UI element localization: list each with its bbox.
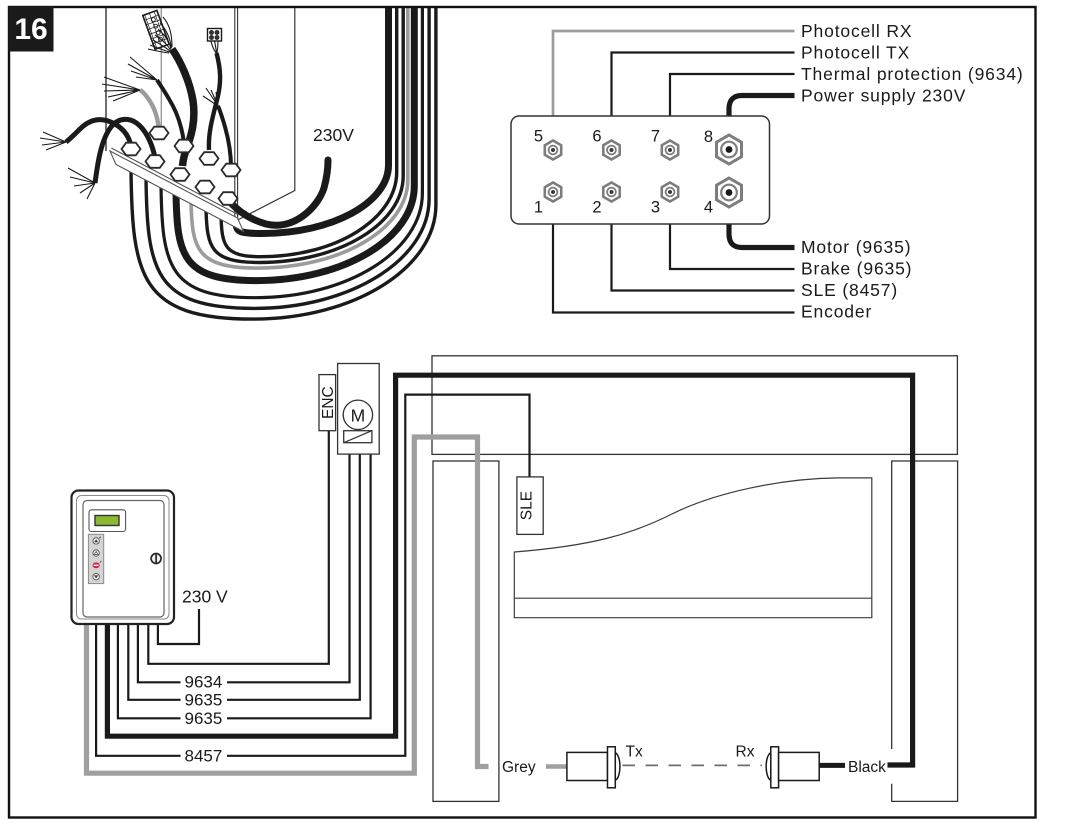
fan wires from small connector: [211, 41, 218, 53]
wire 9634 thermal left part: [138, 621, 181, 682]
multipin connector: [142, 10, 170, 50]
cable glands front row: [122, 143, 238, 205]
wavy cable exiting left: [66, 120, 131, 146]
terminal block body: [511, 116, 770, 224]
svg-text:Thermal protection (9634): Thermal protection (9634): [801, 64, 1024, 84]
svg-text:5: 5: [534, 128, 543, 146]
terminal 3: [662, 183, 678, 202]
svg-text:16: 16: [14, 13, 47, 46]
wire 9635 brake right part to motor box: [227, 454, 371, 718]
svg-text:Power supply 230V: Power supply 230V: [801, 86, 966, 106]
left door post: [433, 461, 499, 801]
svg-text:230V: 230V: [313, 125, 354, 145]
svg-text:6: 6: [592, 128, 601, 146]
control panel body: [72, 491, 175, 625]
svg-text:Brake (9635): Brake (9635): [801, 259, 912, 279]
housing left edge: [105, 8, 107, 151]
wire 230 V supply: [158, 609, 199, 644]
cable 230V supply: [230, 160, 328, 225]
thick cable from multipin connector: [172, 49, 194, 166]
wire terminal6 to Photocell TX: [612, 53, 795, 151]
wire 8457 SLE left part: [96, 621, 180, 756]
terminal 8 (large): [717, 135, 742, 164]
cable bundle U wire 2: [221, 8, 397, 257]
svg-text:Encoder: Encoder: [801, 302, 872, 322]
svg-text:Tx: Tx: [626, 744, 643, 761]
arched cable exiting lower left: [95, 119, 155, 183]
button stop (red): [93, 561, 102, 568]
svg-text:8: 8: [704, 128, 713, 146]
svg-text:M: M: [351, 406, 366, 426]
housing front right edge (double): [235, 8, 238, 220]
control panel door: [83, 501, 164, 618]
display module: [89, 510, 126, 532]
svg-text:4: 4: [704, 199, 713, 217]
wire 9634 thermal right part to motor box: [227, 454, 350, 682]
svg-text:Black: Black: [848, 759, 886, 776]
gland plate: [110, 151, 244, 232]
wire grey stub to Tx photocell: [546, 764, 568, 768]
svg-text:SLE: SLE: [519, 491, 536, 520]
frayed wires of black cable: [128, 57, 157, 80]
svg-text:230 V: 230 V: [182, 587, 228, 607]
door lintel rail: [432, 356, 957, 455]
svg-text:SLE (8457): SLE (8457): [801, 280, 898, 300]
svg-text:ENC: ENC: [320, 386, 337, 419]
svg-text:2: 2: [592, 199, 601, 217]
door lock: [151, 554, 161, 564]
wire 9635 brake left part: [118, 621, 181, 718]
wire terminal3 to Brake: [670, 192, 795, 269]
cable bundle U wire 1 (thick): [236, 8, 389, 234]
terminal 2: [603, 183, 619, 202]
cable bundle U wire 5 (thick): [176, 8, 414, 281]
button up2: [93, 550, 99, 556]
cable bundle U wire 6: [161, 8, 422, 298]
svg-text:1: 1: [534, 199, 543, 217]
cable bundle U wire 8: [131, 8, 436, 319]
svg-text:9634: 9634: [185, 673, 223, 692]
right door post (notched for photocell wire): [892, 461, 958, 801]
photocell beam dashed: [623, 764, 763, 766]
motor symbol M: [343, 400, 372, 429]
motor box: [338, 364, 380, 455]
button up1: [93, 537, 101, 544]
cable bundle U wire 4 (grey): [191, 8, 408, 268]
terminal 1: [545, 183, 561, 202]
wire 9635 motor right part to motor box: [227, 454, 360, 700]
terminal 4 (large): [717, 178, 742, 207]
cable bundle U wire 7: [146, 8, 429, 308]
wire terminal7 to Thermal protection: [670, 74, 795, 150]
SLE box: [517, 477, 543, 535]
small connector: [208, 29, 222, 42]
wire thick black mains to Rx photocell: [107, 375, 912, 765]
fan wires from multipin connector: [148, 17, 172, 53]
figure number 16: [9, 7, 54, 52]
wire terminal2 to SLE: [612, 192, 795, 291]
wire 8457 SLE right part to SLE box: [227, 395, 530, 756]
svg-text:Motor (9635): Motor (9635): [801, 237, 911, 257]
wire terminal5 to Photocell RX: [553, 31, 795, 150]
frayed cable at right gland: [218, 106, 231, 167]
wire encoder to ENC box: [148, 431, 328, 664]
terminal 7: [662, 141, 678, 160]
photocell Tx body: [567, 747, 620, 788]
wire black stub from Rx: [819, 763, 845, 768]
wire terminal8 to Power supply (thick): [729, 96, 795, 151]
housing far right edge: [238, 8, 295, 220]
photocell Rx body: [766, 747, 819, 788]
wire grey photocell TX supply (8457 grey): [87, 437, 489, 773]
wire terminal4 to Motor (thick): [729, 192, 795, 248]
svg-text:7: 7: [651, 128, 660, 146]
svg-text:9635: 9635: [185, 691, 223, 710]
cable bundle U wire 3: [206, 8, 403, 263]
cable from small connector: [209, 53, 220, 150]
svg-text:Photocell RX: Photocell RX: [801, 21, 912, 41]
svg-text:8457: 8457: [185, 747, 223, 766]
frayed wires of grey cable: [102, 77, 140, 101]
cable black inside box: [157, 80, 184, 143]
svg-text:Grey: Grey: [502, 759, 536, 776]
wire terminal1 to Encoder: [553, 192, 795, 313]
brake symbol: [344, 431, 372, 443]
svg-text:Rx: Rx: [736, 744, 755, 761]
housing interior back edge: [160, 8, 162, 127]
svg-text:Photocell TX: Photocell TX: [801, 43, 910, 63]
svg-text:3: 3: [651, 199, 660, 217]
ENC box: [319, 375, 336, 431]
green LCD screen: [95, 516, 119, 526]
door panel bottom rail line: [514, 597, 872, 599]
cable grey inside box: [140, 90, 159, 131]
door panel with S-curve: [514, 478, 872, 618]
button down: [93, 574, 99, 580]
button strip: [88, 534, 103, 583]
svg-text:9635: 9635: [185, 709, 223, 728]
cable glands back row: [150, 127, 241, 177]
wire 9635 motor left part: [128, 621, 180, 700]
terminal 6: [603, 141, 619, 160]
terminal 5: [545, 141, 561, 160]
